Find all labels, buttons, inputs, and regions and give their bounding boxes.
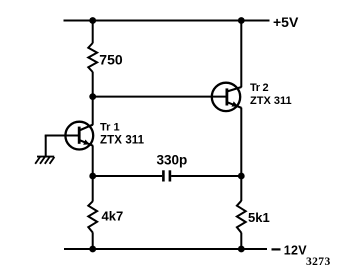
wire: resistor 750 to node A [92,72,94,97]
transistor Q2 Tr2 ZTX311 [212,83,242,111]
resistor R3 5k1 [237,201,246,233]
capacitor C1 330p [163,170,170,181]
ground [35,157,54,164]
wire: base to ground [45,136,47,158]
wire: resistor 4k7 to -12V rail [92,232,94,249]
svg-text:+5V: +5V [273,14,299,30]
wire: node C to resistor 5k1 [240,176,242,201]
wire: resistor 5k1 to -12V rail [240,233,242,249]
wire: Tr2 emitter vertical [240,108,242,176]
svg-text:3273: 3273 [306,256,331,268]
wire: top rail to resistor 750 [92,21,94,44]
svg-text:750: 750 [99,51,123,67]
node B (Tr1 emitter junction) [89,173,96,180]
wire: node B to resistor 4k7 [92,176,94,202]
svg-text:Tr 1: Tr 1 [100,122,120,134]
junction dot: bottom rail left [89,246,96,253]
junction dot: top rail right [238,17,245,24]
node A (Tr1 collector / Tr2 base junction) [89,93,96,100]
wire: Tr1 collector vertical [92,97,94,125]
svg-text:Tr 2: Tr 2 [250,82,269,94]
junction dot: bottom rail right [238,246,245,253]
junction dot: top rail left [89,17,96,24]
svg-text:330p: 330p [157,152,188,167]
node C (Tr2 emitter junction) [238,173,245,180]
wire: Tr1 base [45,135,80,137]
wire: capacitor to node C [171,175,241,177]
wire: top rail to Tr2 collector [240,21,242,88]
resistor R2 4k7 [88,201,97,232]
-12V rail [64,248,267,250]
svg-text:12V: 12V [284,244,308,258]
svg-text:ZTX 311: ZTX 311 [250,95,292,107]
resistor R1 750 [88,43,97,72]
svg-text:4k7: 4k7 [102,208,124,223]
-12V label [272,244,308,258]
wire: node B to capacitor [93,175,163,177]
svg-text:ZTX 311: ZTX 311 [100,135,145,147]
+5V rail [64,20,270,22]
wire: Tr1 emitter vertical [92,145,94,176]
wire: node A to Tr2 base [93,96,227,98]
svg-text:5k1: 5k1 [248,210,270,225]
transistor Q1 Tr1 ZTX311 [65,122,93,150]
